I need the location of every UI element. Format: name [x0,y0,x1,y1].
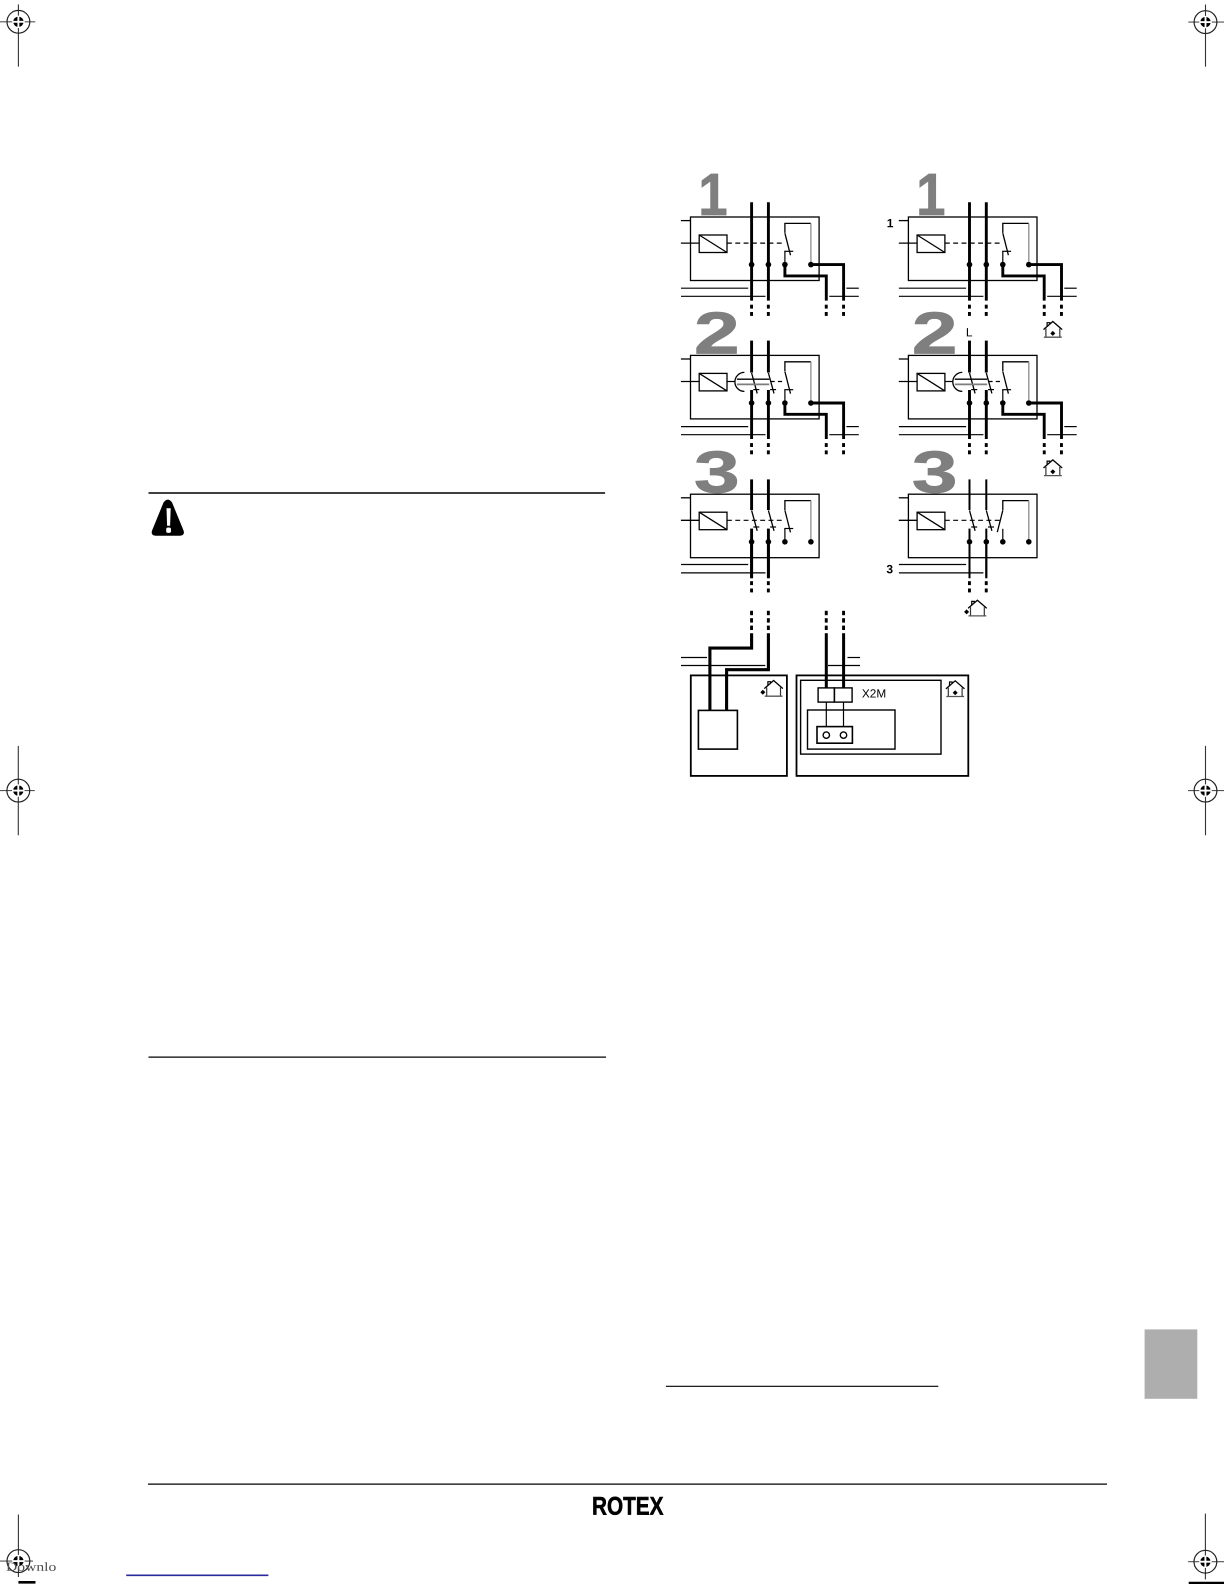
label 1 (input stub) [887,216,894,230]
coil-to-coupling stub (method 2 right) [945,381,953,383]
relay coil K1 (method 1 left) [699,235,727,253]
bus line lower left (method 3 left) [681,572,766,574]
wire L continues below (method 3 left) [750,542,753,579]
dashed actuation link (method 3 right) [945,519,1002,521]
connector pin circle 2 [840,732,846,738]
svg-text:Downlo: Downlo [6,1560,56,1574]
wire N lower segment (method 3 right) [985,529,987,578]
wire break continuation L (method 2 right) [968,443,971,454]
junction node L (method 3 right) [967,539,973,545]
label X2M terminal strip [862,687,886,701]
contact bar wire L (method 2 left) [753,389,759,391]
dashed actuation link (method 2 right) [988,381,1002,383]
wire L continues below (method 3 right) [969,542,971,579]
wire N upper segment (method 2 right) [985,341,988,373]
terminal X2M block cell 2 [834,688,852,702]
svg-text:3: 3 [912,440,958,506]
changeover contact bar (method 1 right) [1002,250,1011,252]
coupling link line lower (method 2 right) [955,383,987,385]
wire break continuation N (method 2 left) [767,443,770,454]
svg-text:1: 1 [887,216,894,230]
coil diagonal (method 1 left) [699,235,727,253]
coil-to-coupling stub (method 2 left) [727,381,735,383]
wire break continuation out1 (method 2 right) [1043,443,1046,454]
input stub upper (method 2 left) [681,358,691,360]
section rule 3 (right column) [666,1385,938,1387]
svg-text:3: 3 [886,562,893,576]
relay box outline (method 2 right) [908,355,1037,419]
big gray step number 2 (method 2 right) [912,301,958,367]
registration mark top-right [1188,5,1224,67]
bus line upper left (method 3 left) [681,564,748,566]
bus line upper left (method 1 right) [899,287,966,289]
changeover terminal (method 1 right) [1002,251,1004,264]
wire N upper segment (method 3 left) [767,479,770,510]
loop return (gray) (method 1 right) [1028,223,1030,262]
contact bar wire L (method 3 left) [753,526,759,528]
changeover terminal (method 2 left) [784,390,786,403]
changeover common node (method 2 left) [782,400,788,406]
wire N vertical (method 1 left) [767,202,770,300]
bus line lower left (method 3 right) [899,572,984,574]
input stub upper (method 1 right) [899,220,909,222]
svg-text:X2M: X2M [862,687,886,701]
label L (live wire) [966,325,973,339]
changeover contact bar (method 1 left) [784,250,793,252]
bus line upper right (method 1 left) [846,287,858,289]
input stub upper (method 3 left) [681,497,691,499]
registration mark top-left [0,4,35,66]
changeover common node (method 1 left) [782,262,788,268]
bus line upper left (method 3 right) [899,564,966,566]
terminal X2M block cell 1 [818,688,834,702]
bus line lower right (method 2 right) [1047,434,1077,436]
house icon (indoor unit) below method 1 right [1044,322,1062,338]
trim line bottom-right [1189,1582,1224,1584]
wire continuation into bottom boxes N [767,611,770,630]
junction node L (method 1 right) [967,262,973,268]
relay coil K1 (method 3 left) [699,512,727,530]
junction node L (method 2 right) [967,400,973,406]
watermark link underline [126,1574,268,1576]
svg-text:2: 2 [694,301,740,367]
wire continuation into bottom boxes out2 [842,611,845,630]
bus line upper left (method 2 left) [681,426,748,428]
big gray step number 1 (method 1 left) [698,161,727,228]
bus stub lower (X2M box) [828,665,860,667]
wire N lower segment (method 2 right) [985,390,988,439]
svg-text:L: L [966,325,973,339]
wire break continuation out2 (method 2 left) [842,443,845,454]
coil supply stub (method 2 right) [899,381,917,383]
changeover contact bar (method 3 left) [784,528,793,530]
big gray step number 3 (method 3 right) [912,440,958,506]
junction node L (method 3 left) [749,539,755,545]
mechanical coupling arc (method 2 left) [735,372,745,391]
bus line lower right (method 1 right) [1047,295,1077,297]
wire break continuation out2 (method 2 right) [1060,443,1063,454]
contact lever wire L (method 3 left) [752,510,758,530]
dashed actuation link (method 2 left) [771,381,785,383]
registration mark middle-right [1188,746,1224,835]
thick wire 1 into X2M box [825,633,828,688]
junction node N (method 1 left) [766,262,772,268]
ROTEX logo [592,1493,664,1521]
indoor unit inner box [801,680,941,754]
bus line lower left (method 2 right) [899,434,984,436]
bus line upper right (method 1 right) [1064,287,1076,289]
changeover terminal (method 2 right) [1002,390,1004,403]
house icon (indoor) in pump box [760,681,782,697]
bus stub upper (pump box) [681,657,707,659]
changeover lever (method 2 left) [785,372,791,394]
bus stub upper (X2M box) [848,657,861,659]
changeover lever (method 1 right) [1003,233,1009,255]
svg-text:1: 1 [916,161,945,228]
relay coil K1 (method 1 right) [917,235,945,253]
thick output wire elbow 2 (method 1 left) [811,265,844,301]
warning triangle icon [153,501,183,535]
indoor unit outer box [797,675,969,776]
coil supply stub (method 3 left) [681,519,699,521]
wire break continuation N (method 3 left) [767,581,770,592]
section rule 2 [149,1056,607,1058]
coil supply stub (method 2 left) [681,381,699,383]
pump unit outer box [691,675,787,776]
coil diagonal (method 2 left) [699,373,727,391]
loop node (method 2 right) [1026,400,1032,406]
changeover common node (method 1 right) [1000,262,1006,268]
thick output wire elbow 1 (method 2 left) [785,403,826,439]
junction node N (method 3 right) [984,539,990,545]
wire L upper segment (method 3 right) [969,479,971,510]
big gray step number 1 (method 1 right) [916,161,945,228]
coupling link line lower (method 2 left) [737,383,769,385]
connector box [817,727,852,744]
junction node N (method 2 left) [766,400,772,406]
coil supply stub (method 1 left) [681,242,699,244]
bus line lower right (method 1 left) [829,295,859,297]
wire break continuation out2 (method 1 right) [1060,305,1063,316]
svg-text:2: 2 [912,301,958,367]
relay coil K1 (method 2 left) [699,373,727,391]
loop node (method 1 right) [1026,262,1032,268]
coil diagonal (method 1 right) [917,235,945,253]
footer rule [148,1483,1107,1485]
relay coil K1 (method 3 right) [917,512,945,530]
wire N upper segment (method 2 left) [767,341,770,373]
svg-text:ROTEX: ROTEX [592,1493,664,1521]
PCB area box [808,710,896,749]
contact lever wire N (method 2 left) [768,373,774,393]
wire continuation into bottom boxes L [750,611,753,630]
input stub upper (method 2 right) [899,358,909,360]
wire L upper segment (method 2 left) [750,341,753,373]
wire break continuation L (method 1 left) [750,305,753,316]
coil diagonal (method 3 right) [917,512,945,530]
big gray step number 2 (method 2 left) [694,301,740,367]
changeover terminal (method 1 left) [784,251,786,264]
dashed actuation link (method 3 left) [727,519,784,521]
wire break continuation out1 (method 1 right) [1043,305,1046,316]
wire L lower segment (method 3 left) [750,529,753,578]
wire N lower segment (method 2 left) [767,390,770,439]
contact bar wire N (method 2 left) [770,389,776,391]
wire continuation into bottom boxes out1 [825,611,828,630]
wire break continuation N (method 2 right) [985,443,988,454]
relay box outline (method 1 left) [691,217,820,281]
pump component box [698,710,737,749]
coil supply stub (method 1 right) [899,242,917,244]
junction node N (method 1 right) [984,262,990,268]
loop return (gray) (method 3 left) [810,501,812,539]
thick output wire elbow 2 (method 1 right) [1029,265,1062,301]
wire N upper segment (method 3 right) [985,479,987,510]
thick wire L into pump box [710,633,752,710]
big gray step number 3 (method 3 left) [694,440,740,506]
house icon (indoor) in X2M box [946,681,964,697]
contact bar wire L (method 3 right) [971,526,977,528]
bus line lower left (method 1 left) [681,295,766,297]
house icon (indoor unit) below method 2 right [1044,460,1062,476]
wire N continues below (method 3 right) [985,542,987,579]
changeover terminal (method 3 left) [784,529,786,542]
loop return (gray) (method 1 left) [810,223,812,262]
bus line upper left (method 2 right) [899,426,966,428]
relay box outline (method 2 left) [691,355,820,419]
loop node (method 1 left) [808,262,814,268]
wire N vertical (method 1 right) [985,202,988,300]
wire break continuation out2 (method 1 left) [842,305,845,316]
bus line upper left (method 1 left) [681,287,748,289]
coil diagonal (method 2 right) [917,373,945,391]
changeover common node (method 3 right) [1000,539,1006,545]
wire N continues below (method 3 left) [767,542,770,579]
contact lever wire L (method 2 left) [752,373,758,393]
input stub upper (method 1 left) [681,220,691,222]
changeover contact loop (method 3 right) [1003,501,1029,511]
changeover contact loop (method 1 left) [785,223,811,233]
contact lever wire L (method 3 right) [970,510,976,530]
coil supply stub (method 3 right) [899,519,917,521]
loop return (gray) (method 2 right) [1028,362,1030,401]
coupling link line upper (method 2 left) [737,378,769,380]
changeover contact bar (method 2 right) [1002,389,1011,391]
loop return (gray) (method 3 right) [1028,501,1030,539]
contact lever wire N (method 3 right) [986,510,992,530]
thick output wire elbow 1 (method 1 right) [1003,265,1044,301]
relay coil K1 (method 2 right) [917,373,945,391]
changeover lever (method 2 right) [1003,372,1009,394]
changeover terminal (method 3 right) [1002,529,1004,542]
changeover contact bar (method 2 left) [784,389,793,391]
changeover contact loop (method 2 right) [1003,362,1029,372]
watermark text Downlo [6,1560,56,1574]
thick wire N into pump box [727,633,769,710]
changeover common node (method 2 right) [1000,400,1006,406]
wire break continuation L (method 2 left) [750,443,753,454]
wire L lower segment (method 2 right) [968,390,971,439]
wire L lower segment (method 2 left) [750,390,753,439]
wire break continuation out1 (method 2 left) [825,443,828,454]
wire L lower segment (method 3 right) [969,529,971,578]
junction node N (method 3 left) [766,539,772,545]
registration mark bottom-left [0,1515,33,1578]
section rule above warning [149,492,606,494]
bus stub lower (pump box) [681,665,765,667]
wire break continuation L (method 3 right) [968,581,971,592]
bus line upper right (method 2 left) [846,426,858,428]
changeover lever (method 3 left) [785,510,791,532]
coupling link line upper (method 2 right) [955,378,987,380]
changeover contact loop (method 1 right) [1003,223,1029,233]
dashed actuation link (method 1 right) [945,242,1002,244]
contact lever wire N (method 3 left) [768,510,774,530]
wire break continuation L (method 3 left) [750,581,753,592]
loop node (method 2 left) [808,400,814,406]
bus line lower left (method 1 right) [899,295,984,297]
changeover lever (method 3 right) [997,510,1003,532]
bus line lower right (method 2 left) [829,434,859,436]
coil diagonal (method 3 left) [699,512,727,530]
bus line lower left (method 2 left) [681,434,766,436]
connector pin circle 1 [823,732,829,738]
relay box outline (method 1 right) [908,217,1037,281]
registration mark middle-left [0,746,35,835]
bus line upper right (method 2 right) [1064,426,1076,428]
label 3 (bus lines) [886,562,893,576]
svg-text:3: 3 [694,440,740,506]
relay box outline (method 3 right) [908,494,1037,558]
wire break continuation L (method 1 right) [968,305,971,316]
thick wire 2 into X2M box [842,633,845,688]
changeover lever (method 1 left) [785,233,791,255]
changeover contact loop (method 2 left) [785,362,811,372]
wire L vertical (method 1 right) [968,202,971,300]
contact lever wire L (method 2 right) [970,373,976,393]
dashed actuation link (method 1 left) [727,242,784,244]
contact bar wire N (method 2 right) [988,389,994,391]
wire break continuation N (method 1 left) [767,305,770,316]
contact bar wire N (method 3 right) [988,526,994,528]
changeover contact loop (method 3 left) [785,501,811,511]
junction node L (method 1 left) [749,262,755,268]
house icon (indoor unit) below method 3 right [964,600,986,616]
junction node L (method 2 left) [749,400,755,406]
gray thumb-index block [1145,1329,1198,1398]
thick output wire elbow 1 (method 2 right) [1003,403,1044,439]
thick output wire elbow 2 (method 2 left) [811,403,844,439]
changeover common node (method 3 left) [782,539,788,545]
thick output wire elbow 2 (method 2 right) [1029,403,1062,439]
contact bar wire L (method 2 right) [971,389,977,391]
loop return (gray) (method 2 left) [810,362,812,401]
wire L vertical (method 1 left) [750,202,753,300]
contact lever wire N (method 2 right) [986,373,992,393]
thin wire terminal 1 to connector [825,702,827,727]
relay box outline (method 3 left) [691,494,820,558]
loop node (method 3 right) [1026,539,1032,545]
wire N lower segment (method 3 left) [767,529,770,578]
registration mark bottom-right [1188,1514,1224,1580]
mechanical coupling arc (method 2 right) [953,372,962,391]
contact bar wire N (method 3 left) [770,526,776,528]
wire L upper segment (method 2 right) [968,341,971,373]
wire L upper segment (method 3 left) [750,479,753,510]
thin wire terminal 2 to connector [843,702,845,727]
input stub upper (method 3 right) [899,497,909,499]
trim line bottom-left [18,1581,35,1584]
loop node (method 3 left) [808,539,814,545]
wire break continuation N (method 1 right) [985,305,988,316]
wire break continuation out1 (method 1 left) [825,305,828,316]
junction node N (method 2 right) [984,400,990,406]
wire break continuation N (method 3 right) [985,581,988,592]
thick output wire elbow 1 (method 1 left) [785,265,826,301]
svg-text:1: 1 [698,161,727,228]
